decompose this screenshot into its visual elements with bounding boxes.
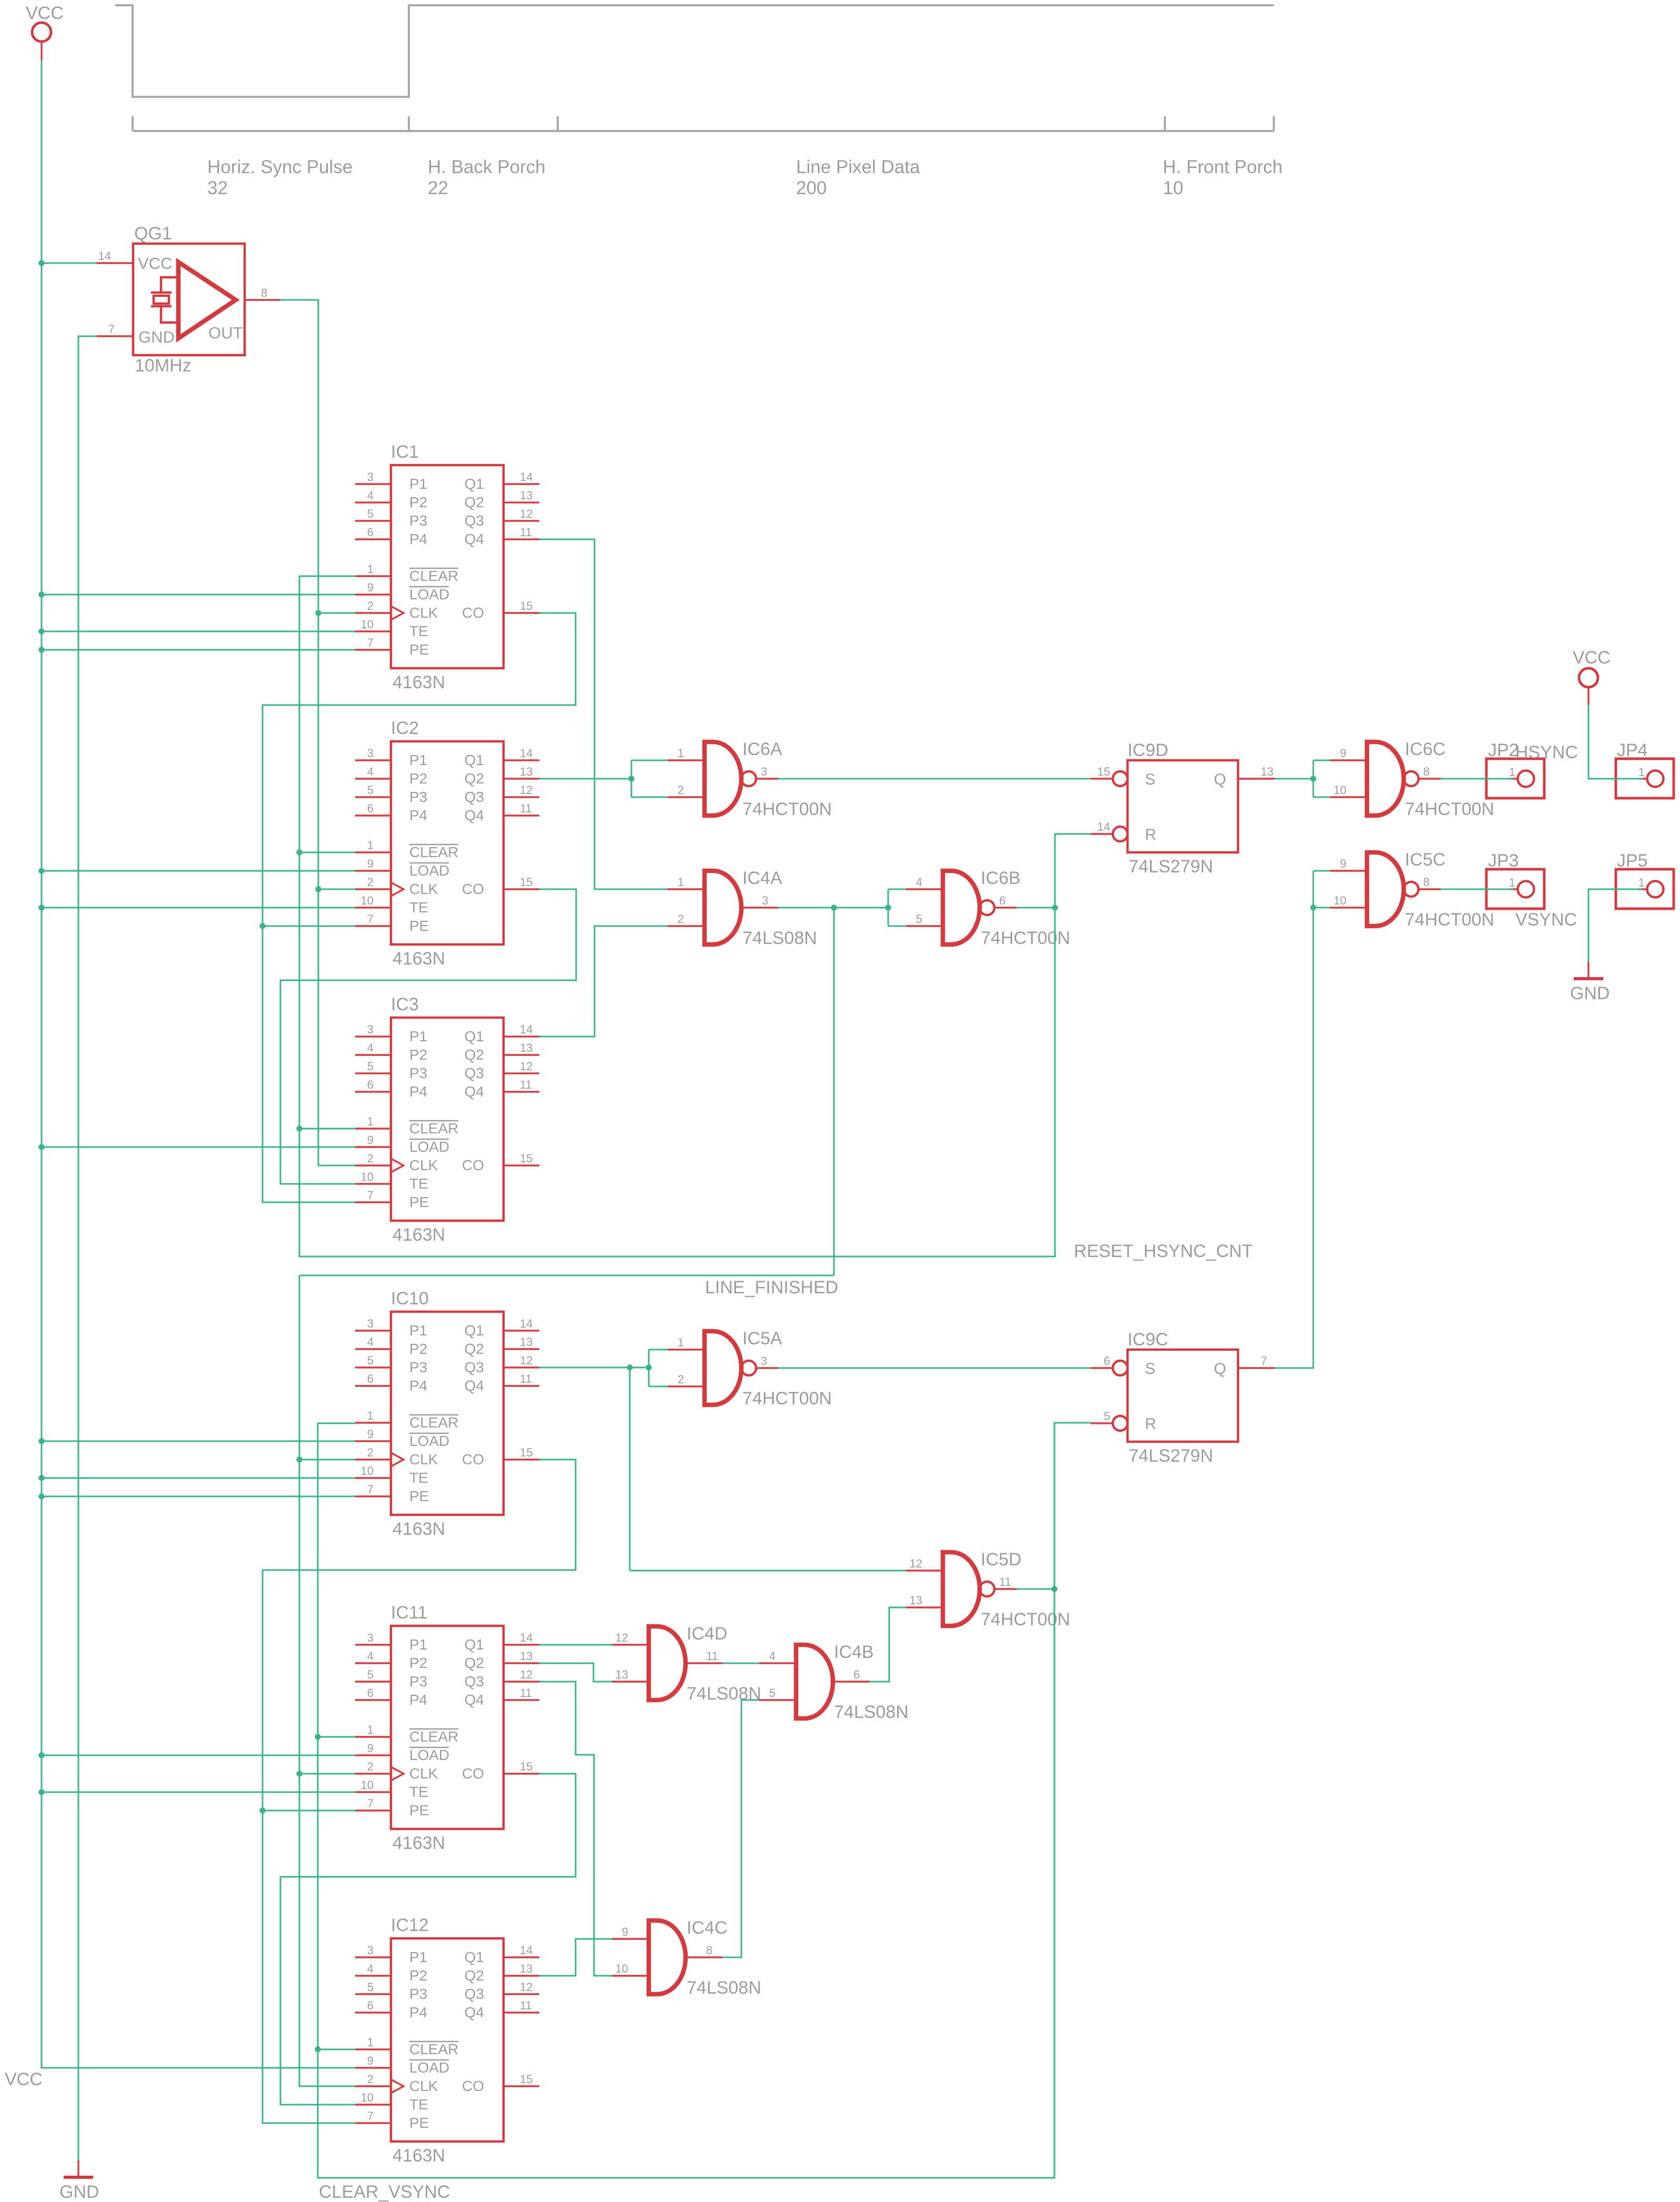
wire CLK net from QG1 OUT to IC1 IC2 IC3 (280, 300, 355, 1165)
latch IC9D 74LS279N (1091, 740, 1275, 877)
svg-text:JP5: JP5 (1617, 851, 1648, 871)
svg-text:8: 8 (706, 1944, 712, 1957)
gate IC4D 74LS08N AND (612, 1624, 761, 1704)
wire IC5A output to IC9C S (778, 1368, 1091, 1369)
svg-text:QG1: QG1 (134, 224, 172, 244)
counter IC2 4163N (355, 718, 539, 969)
wire IC11 CO to IC12 TE (280, 1774, 576, 2105)
svg-text:IC5C: IC5C (1405, 850, 1445, 870)
gate IC5D 74HCT00N NAND (906, 1550, 1070, 1630)
svg-text:12: 12 (910, 1557, 922, 1570)
connector JP3 VSYNC (1486, 851, 1577, 930)
crystal inside QG1 (151, 277, 178, 323)
latch IC9C 74LS279N (1091, 1330, 1275, 1466)
svg-text:2: 2 (678, 783, 684, 797)
svg-text:H. Front Porch: H. Front Porch (1163, 157, 1283, 177)
svg-text:8: 8 (261, 286, 267, 299)
gate IC4B 74LS08N AND (759, 1642, 909, 1722)
connector JP5 (1616, 851, 1674, 909)
svg-text:GND: GND (59, 2182, 99, 2202)
svg-text:10: 10 (616, 1962, 628, 1975)
svg-text:74HCT00N: 74HCT00N (742, 1389, 832, 1409)
gate IC6B 74HCT00N NAND (906, 868, 1070, 948)
svg-text:IC6B: IC6B (981, 868, 1021, 888)
svg-text:JP4: JP4 (1617, 740, 1648, 760)
svg-text:IC11: IC11 (391, 1603, 427, 1623)
svg-text:VCC: VCC (1573, 648, 1611, 668)
svg-text:4: 4 (769, 1650, 776, 1663)
svg-text:Horiz. Sync Pulse: Horiz. Sync Pulse (207, 157, 353, 177)
svg-text:VCC: VCC (26, 3, 64, 23)
wire IC2 Q2 to IC6A inputs (539, 760, 668, 797)
wire IC1 Q4 to IC4A pin 1 (539, 539, 668, 889)
svg-text:H. Back Porch: H. Back Porch (428, 157, 546, 177)
svg-text:8: 8 (1423, 765, 1430, 778)
svg-text:10: 10 (1163, 178, 1183, 198)
svg-text:74HCT00N: 74HCT00N (742, 799, 832, 819)
svg-text:5: 5 (769, 1686, 776, 1700)
svg-text:IC6C: IC6C (1405, 739, 1445, 759)
power VCC top-right (1579, 668, 1598, 706)
wire IC12 Q2 to IC4C pin 9 (539, 1939, 612, 1976)
svg-text:74HCT00N: 74HCT00N (1405, 799, 1494, 819)
power VCC top-left (32, 23, 51, 60)
svg-text:4163N: 4163N (393, 1519, 445, 1539)
svg-text:1: 1 (678, 876, 684, 889)
svg-text:IC3: IC3 (391, 994, 419, 1014)
gate IC4C 74LS08N AND (612, 1918, 761, 1998)
svg-text:IC2: IC2 (391, 718, 419, 738)
svg-text:IC5D: IC5D (981, 1550, 1021, 1570)
svg-text:GND: GND (138, 328, 175, 346)
svg-text:3: 3 (761, 1354, 767, 1368)
svg-text:3: 3 (762, 894, 768, 907)
svg-text:4163N: 4163N (393, 1833, 445, 1853)
svg-text:4: 4 (916, 876, 922, 889)
connector JP2 HSYNC (1486, 740, 1578, 798)
svg-text:74LS279N: 74LS279N (1129, 1446, 1213, 1466)
ground GND bottom-left (64, 2160, 93, 2177)
svg-text:RESET_HSYNC_CNT: RESET_HSYNC_CNT (1074, 1241, 1253, 1261)
wire IC11 Q2 to IC4D pin 13 (539, 1663, 612, 1682)
wire IC11 Q1 to IC4D pin 12 (539, 1644, 612, 1646)
svg-text:5: 5 (1104, 1410, 1110, 1423)
svg-text:IC4A: IC4A (742, 868, 782, 888)
counter IC3 4163N (355, 994, 539, 1245)
svg-text:32: 32 (207, 178, 228, 198)
wire IC11 Q3 to IC4C pin 10 (539, 1682, 612, 1976)
svg-text:200: 200 (796, 178, 827, 198)
svg-text:7: 7 (108, 323, 115, 336)
wire IC4C output to IC4B pin 5 (722, 1700, 759, 1957)
svg-text:GND: GND (1570, 983, 1610, 1003)
svg-text:LINE_FINISHED: LINE_FINISHED (705, 1278, 838, 1298)
wire VCC rail left with branches to LOAD/TE/PE pins (38, 60, 355, 2068)
svg-text:14: 14 (1098, 820, 1110, 833)
svg-text:10: 10 (1334, 894, 1346, 907)
svg-text:IC6A: IC6A (742, 739, 782, 759)
svg-text:13: 13 (616, 1668, 628, 1681)
svg-text:13: 13 (910, 1594, 922, 1607)
svg-text:10MHz: 10MHz (135, 356, 192, 376)
svg-text:9: 9 (1340, 747, 1346, 760)
svg-text:IC10: IC10 (391, 1289, 429, 1309)
wire JP5 to GND right (1588, 889, 1643, 962)
svg-text:22: 22 (428, 178, 448, 198)
svg-text:3: 3 (761, 765, 767, 778)
svg-text:VCC: VCC (138, 254, 172, 273)
svg-text:74HCT00N: 74HCT00N (981, 928, 1070, 948)
wire IC6C output to JP2 (1441, 778, 1513, 780)
svg-text:15: 15 (1098, 765, 1110, 778)
svg-text:12: 12 (616, 1631, 628, 1644)
svg-text:2: 2 (678, 912, 684, 926)
svg-text:IC4B: IC4B (834, 1642, 874, 1662)
gate IC6A 74HCT00N NAND (668, 739, 832, 819)
svg-text:IC9C: IC9C (1128, 1330, 1168, 1350)
svg-text:74LS08N: 74LS08N (742, 928, 817, 948)
gate IC5A 74HCT00N NAND (668, 1329, 832, 1409)
svg-text:6: 6 (999, 894, 1005, 907)
wire IC10 CO to IC11 PE and IC12 PE (259, 1460, 576, 2123)
bracket: timing measurement bracket (133, 116, 1274, 131)
svg-text:CLEAR_VSYNC: CLEAR_VSYNC (319, 2182, 450, 2202)
svg-text:10: 10 (1334, 783, 1346, 797)
svg-text:VCC: VCC (5, 2069, 43, 2089)
svg-text:JP3: JP3 (1488, 851, 1519, 871)
svg-text:5: 5 (916, 912, 922, 926)
svg-text:IC12: IC12 (391, 1915, 429, 1935)
wire IC10 Q3 to IC5A inputs and IC5D pin 12 (539, 1350, 906, 1571)
svg-text:11: 11 (706, 1650, 718, 1663)
svg-text:74LS279N: 74LS279N (1129, 857, 1213, 877)
svg-text:IC5A: IC5A (742, 1329, 782, 1349)
wire GND rail from QG1 pin 7 (78, 336, 97, 2160)
svg-text:4163N: 4163N (393, 1225, 445, 1245)
wire IC4D output to IC4B pin 4 (722, 1663, 759, 1664)
wire IC9C Q to IC5C inputs (1275, 871, 1330, 1368)
svg-text:4163N: 4163N (393, 949, 445, 969)
svg-text:74HCT00N: 74HCT00N (981, 1610, 1070, 1630)
svg-text:1: 1 (678, 747, 684, 760)
svg-text:6: 6 (1104, 1354, 1110, 1368)
wire VCC top-right to JP4 (1588, 705, 1643, 779)
svg-text:11: 11 (999, 1575, 1011, 1588)
svg-text:74LS08N: 74LS08N (687, 1978, 761, 1998)
svg-text:IC4D: IC4D (687, 1624, 727, 1644)
wire IC9D Q to IC6C inputs (1275, 760, 1330, 797)
svg-text:9: 9 (622, 1925, 628, 1938)
counter IC1 4163N (355, 442, 539, 692)
svg-text:IC1: IC1 (391, 442, 419, 462)
svg-text:6: 6 (853, 1668, 860, 1681)
svg-text:74HCT00N: 74HCT00N (1405, 910, 1494, 930)
counter IC11 4163N (355, 1603, 539, 1853)
svg-text:4163N: 4163N (393, 2146, 445, 2166)
svg-text:VSYNC: VSYNC (1515, 910, 1577, 930)
wire IC1 CO to IC2 PE and IC3 PE (259, 613, 576, 1202)
svg-text:OUT: OUT (208, 324, 243, 342)
svg-text:74LS08N: 74LS08N (834, 1702, 909, 1722)
gate IC4A 74LS08N AND (668, 868, 817, 948)
oscillator QG1 10MHz (97, 224, 280, 376)
wire IC3 Q1 to IC4A pin 2 (539, 926, 668, 1037)
svg-text:8: 8 (1423, 876, 1430, 889)
svg-text:Line Pixel Data: Line Pixel Data (796, 157, 920, 177)
wire IC2 CO to IC3 TE (280, 889, 576, 1184)
svg-text:7: 7 (1261, 1354, 1267, 1368)
gate IC6C 74HCT00N NAND (1330, 739, 1494, 819)
wire CLEAR_VSYNC net: IC10-IC12 CLEAR rail to IC9C R and IC5D output (315, 1423, 1091, 2178)
ground GND right (1574, 962, 1603, 979)
svg-text:4163N: 4163N (393, 672, 445, 692)
wire IC4B output to IC5D pin 13 (870, 1607, 906, 1682)
svg-text:2: 2 (678, 1373, 684, 1386)
svg-text:13: 13 (1261, 765, 1273, 778)
svg-text:IC9D: IC9D (1128, 740, 1168, 760)
connector JP4 (1616, 740, 1674, 798)
counter IC10 4163N (355, 1289, 539, 1539)
svg-text:1: 1 (678, 1336, 684, 1349)
svg-text:JP2: JP2 (1488, 740, 1519, 760)
wire RESET_HSYNC_CNT net: IC1-IC3 CLEAR rail to IC9D R and IC6B output (296, 576, 1091, 1256)
wire IC5C output to JP3 (1441, 889, 1513, 890)
wire LINE_FINISHED net: IC4A output to IC6B inputs and IC10-IC12 CLK rail (296, 889, 906, 2086)
svg-text:IC4C: IC4C (687, 1918, 727, 1938)
svg-text:14: 14 (98, 249, 111, 263)
gate IC5C 74HCT00N NAND (1330, 850, 1494, 930)
waveform: horizontal line timing diagram (115, 5, 1274, 97)
svg-text:9: 9 (1340, 857, 1346, 870)
svg-text:HSYNC: HSYNC (1515, 742, 1578, 762)
wire IC6A output to IC9D S (778, 778, 1091, 780)
counter IC12 4163N (355, 1915, 539, 2166)
